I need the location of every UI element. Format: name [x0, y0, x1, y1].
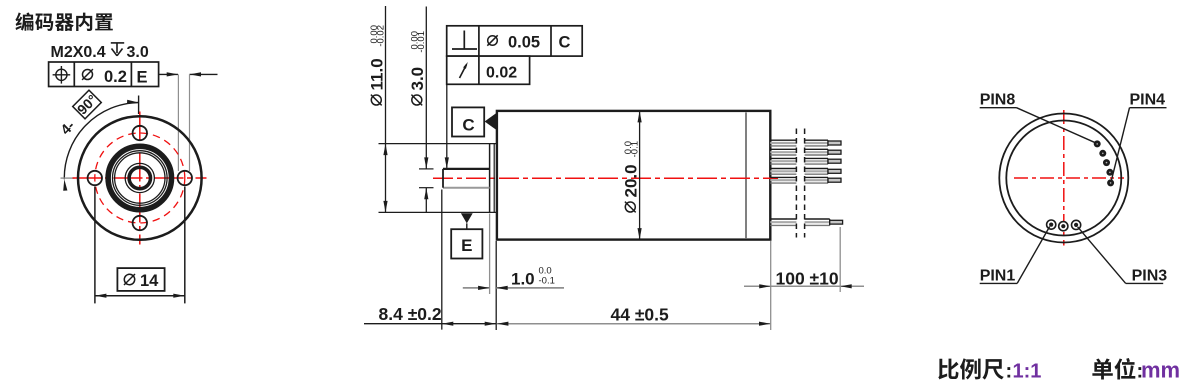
- connector pins top cluster (5 pins): [770, 140, 841, 183]
- title text: encoder built-in (Chinese): [15, 12, 112, 31]
- connector pin bottom: [770, 219, 842, 225]
- inner ring a: [113, 151, 168, 206]
- pin dots arc (pins 4-8): [1094, 140, 1114, 186]
- runout leader arrow to shaft: [445, 84, 449, 169]
- rear inner circle: [1006, 121, 1121, 236]
- label dia 11.0 with tolerance (rotated): [367, 25, 386, 105]
- break lines (dashed): [796, 129, 804, 238]
- svg-text:E: E: [137, 69, 148, 87]
- svg-text:PIN8: PIN8: [980, 92, 1016, 109]
- dim 44 dimension line (gray): [497, 322, 771, 326]
- svg-text:-0.1: -0.1: [630, 141, 641, 157]
- svg-text:PIN3: PIN3: [1132, 267, 1168, 284]
- svg-text:-0.02: -0.02: [376, 25, 387, 47]
- svg-text:0.05: 0.05: [508, 34, 540, 52]
- mounting hole top: [133, 126, 147, 140]
- datum C box and triangle: [452, 107, 497, 136]
- dim dia14 extension lines: [95, 187, 185, 304]
- rear view centerline horizontal (red): [1014, 177, 1124, 179]
- bottom pin rings (pins 1-3): [1047, 220, 1081, 231]
- svg-text:20.0: 20.0: [621, 164, 640, 197]
- svg-text:44 ±0.5: 44 ±0.5: [611, 304, 670, 324]
- shaft: [443, 169, 490, 188]
- feature control frame: perpendicularity dia 0.05 C: [447, 26, 583, 56]
- mounting hole right: [178, 171, 192, 185]
- inner ring b: [115, 153, 165, 203]
- dim dia14 dimension line with arrows: [95, 294, 185, 298]
- flange centerline vertical (red): [139, 112, 141, 245]
- dim 100 dimension line (gray, outside arrows): [744, 284, 864, 288]
- body end-cap seam line: [745, 112, 747, 238]
- svg-text:PIN1: PIN1: [980, 267, 1016, 284]
- svg-text:PIN4: PIN4: [1130, 92, 1166, 109]
- svg-text:M2X0.4: M2X0.4: [51, 44, 106, 61]
- svg-text:11.0: 11.0: [367, 58, 386, 90]
- label dia 3.0 with tolerance (rotated): [408, 31, 427, 105]
- svg-text:0.2: 0.2: [104, 68, 127, 86]
- label PIN8 with leader: [980, 92, 1096, 143]
- label 1.0 with tolerance: [511, 266, 555, 289]
- svg-text:8.4 ±0.2: 8.4 ±0.2: [379, 304, 442, 324]
- hole diameter extension lines (gray): [178, 74, 189, 171]
- rear outer circle: [999, 114, 1128, 243]
- dim 100 right extension line: [839, 227, 841, 292]
- svg-text:C: C: [462, 116, 474, 135]
- mounting hole left: [88, 171, 102, 185]
- datum E box and triangle: [451, 213, 482, 258]
- svg-text::: :: [1006, 361, 1013, 383]
- angle dimension 4-90deg label: [58, 90, 101, 138]
- shaft ring thick: [129, 167, 150, 188]
- flange centerline horizontal (red): [73, 177, 207, 179]
- label PIN4 with leader: [1111, 92, 1166, 182]
- dim dia20 dimension line: [638, 111, 642, 240]
- dim 1.0 extension lines: [490, 214, 497, 331]
- svg-text:-0.01: -0.01: [416, 31, 427, 53]
- svg-text:14: 14: [140, 272, 159, 290]
- label 8.4 +-0.2: [379, 304, 442, 324]
- feature control frame: position dia 0.2 E: [49, 62, 159, 87]
- flange outer circle: [78, 116, 202, 240]
- label PIN1 with leader: [980, 227, 1050, 285]
- scale text: 比例尺:1:1: [938, 358, 1041, 382]
- label dia 20.0 with tolerance (rotated): [621, 141, 640, 212]
- svg-text:mm: mm: [1141, 358, 1180, 383]
- svg-text:1:1: 1:1: [1013, 361, 1042, 383]
- dim 8.4 dimension line: [364, 322, 496, 326]
- body centerline (red dash-dot): [433, 177, 778, 179]
- unit text: 单位:mm: [1092, 358, 1180, 383]
- svg-text:100 ±10: 100 ±10: [776, 268, 839, 288]
- dim dia14 boxed label: [117, 268, 164, 291]
- dim 1.0 dimension line with outside arrows: [463, 286, 564, 290]
- dim dia11 dimension line: [383, 6, 387, 212]
- svg-text:3.0: 3.0: [408, 67, 427, 91]
- dim 8.4 extension line at shaft end: [441, 190, 443, 330]
- label 100 +-10: [775, 268, 839, 288]
- motor body outline: [497, 111, 770, 240]
- rear view centerline vertical (red): [1063, 110, 1065, 246]
- dim 44 right extension line: [770, 241, 772, 330]
- svg-text:-0.1: -0.1: [539, 276, 555, 287]
- svg-text:3.0: 3.0: [127, 44, 149, 61]
- feature control frame: circular runout 0.02: [447, 56, 530, 84]
- angle dimension arc with arrowheads: [61, 96, 139, 191]
- leader from frame to hole-diameter extension lines: [159, 72, 218, 76]
- dim dia3 extension ticks: [419, 169, 434, 188]
- svg-text:C: C: [559, 34, 571, 52]
- label PIN3 with leader: [1078, 227, 1168, 284]
- mounting hole bottom: [133, 216, 147, 230]
- front boss (1.0mm plate): [379, 144, 497, 213]
- label 44 +-0.5: [611, 304, 670, 324]
- dim dia3 dimension line with outside arrows: [424, 7, 428, 214]
- svg-text:E: E: [461, 236, 472, 255]
- boss ring thick (dia 11): [108, 146, 171, 209]
- thread callout M2X0.4 depth 3.0: [51, 43, 149, 61]
- hub ring thin: [125, 163, 154, 192]
- svg-text:1.0: 1.0: [511, 269, 535, 288]
- svg-text:0.02: 0.02: [486, 65, 517, 82]
- bolt circle (red dashed, dia 14): [95, 133, 185, 223]
